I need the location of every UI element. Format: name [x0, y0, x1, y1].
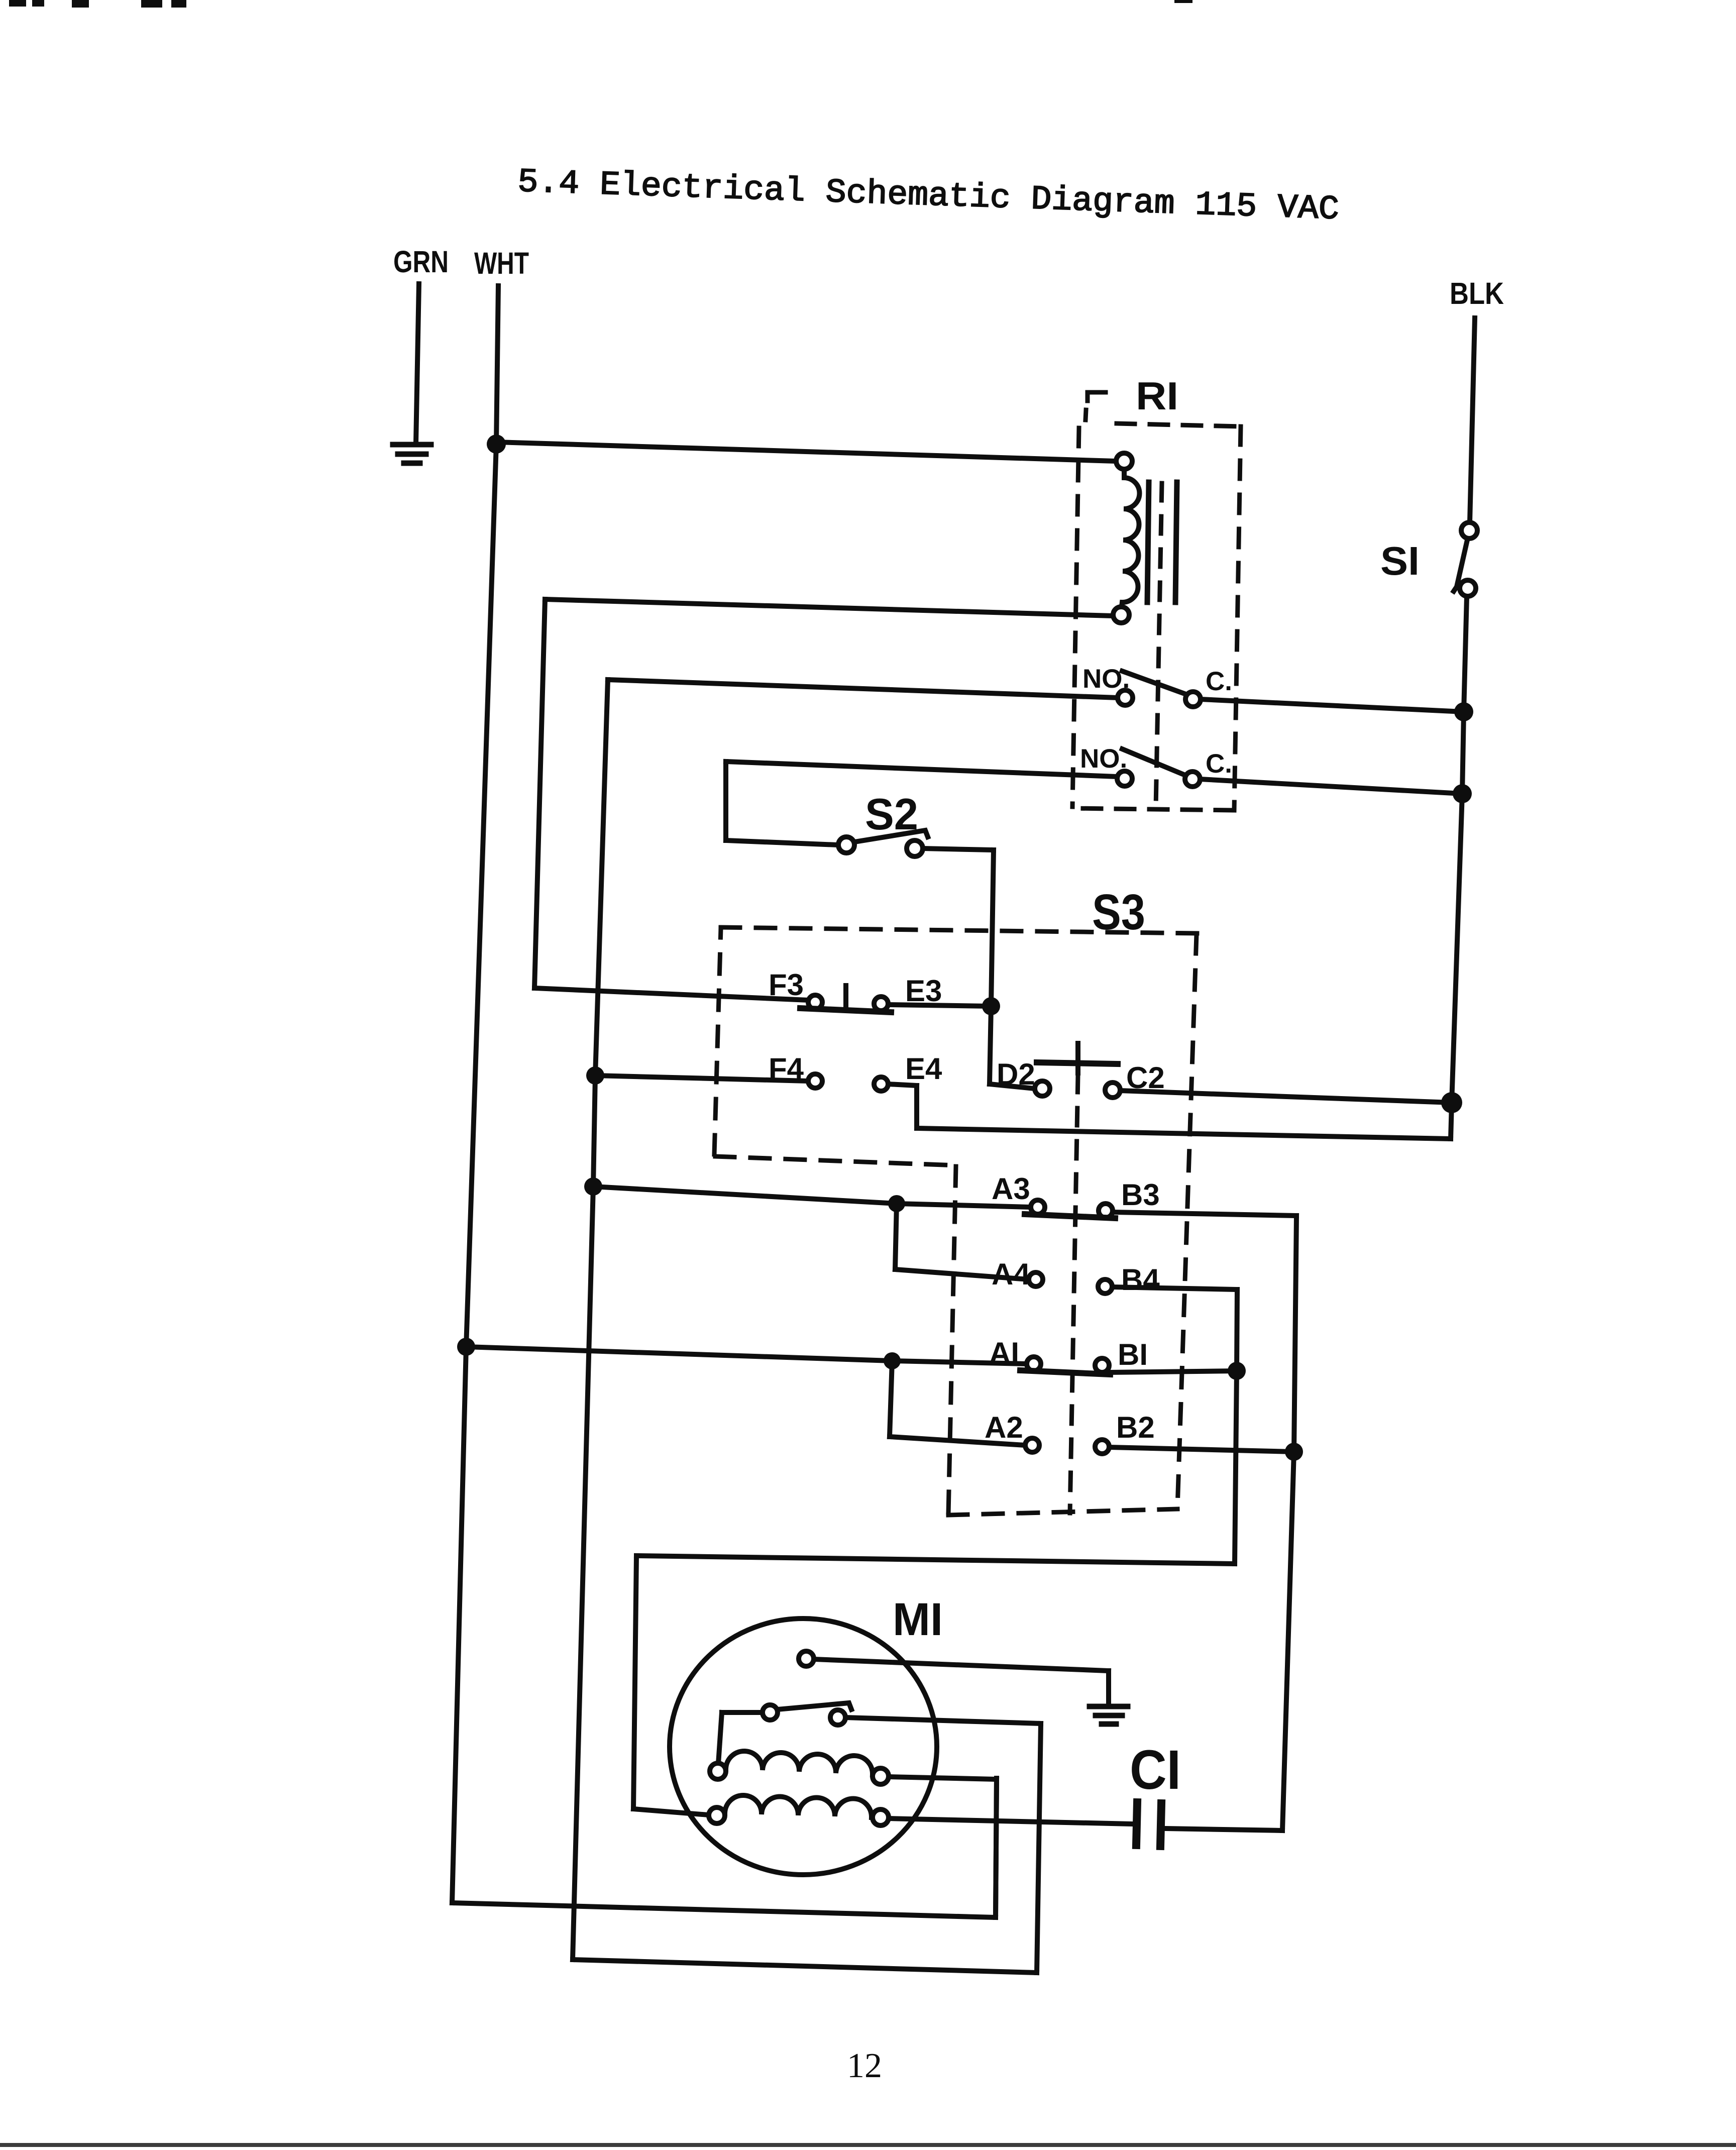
relay R1 coil [1113, 453, 1139, 623]
junction dot rail / A3 [584, 1177, 602, 1196]
svg-text:GRN: GRN [393, 245, 449, 279]
scan artifact marks top-left [9, 0, 1192, 8]
wire BLK lead [1470, 318, 1475, 522]
svg-text:12: 12 [847, 2047, 882, 2085]
wire WHT junction to A1 [466, 1347, 1027, 1364]
wire WHT lead down left side [452, 286, 997, 1917]
svg-text:CI: CI [1130, 1739, 1181, 1801]
svg-text:C.: C. [1206, 667, 1232, 696]
wire B1 rail down to winding2 left [633, 1371, 1237, 1815]
ground symbol M1 [1090, 1706, 1128, 1724]
contact A3-B3 (closed, bar below) [593, 1187, 1296, 1218]
svg-text:A2: A2 [985, 1411, 1023, 1444]
switch S2 [838, 830, 994, 1006]
wire contact2 NO to S2 (left elbow) [726, 762, 838, 845]
contact A4-B4 (open) [1029, 1272, 1237, 1371]
svg-text:B4: B4 [1121, 1263, 1160, 1297]
wire GRN lead [416, 284, 419, 443]
svg-text:5.4 Electrical Schematic Diagr: 5.4 Electrical Schematic Diagram 115 VAC [517, 163, 1340, 229]
svg-text:BI: BI [1118, 1338, 1148, 1371]
svg-text:SI: SI [1380, 539, 1420, 583]
wire B3/B2 rail down to capacitor [1165, 1216, 1296, 1831]
contact F3-E3 (closed, bar below) [800, 986, 991, 1012]
junction dot B2 / B3 rail [1285, 1443, 1303, 1461]
relay R1 core bars [1147, 482, 1177, 602]
svg-text:A4: A4 [992, 1257, 1030, 1291]
svg-text:E4: E4 [905, 1052, 942, 1086]
wire A2 branch [890, 1361, 1025, 1445]
relay R1 contact 2 (NO - C) [726, 749, 1462, 794]
svg-text:F3: F3 [769, 968, 804, 1002]
junction dot S1 rail / C2 wire [1441, 1092, 1462, 1113]
switch S3 dashed enclosure (upper box) [714, 927, 1197, 1508]
junction dot WHT at A1 branch [457, 1338, 475, 1356]
wire R1 coil bottom to F3 via left elbow [534, 599, 1113, 1000]
junction dot B1 / B4 rail [1228, 1362, 1246, 1380]
contact F4-E4 (open) [595, 1074, 888, 1091]
svg-text:B3: B3 [1121, 1178, 1160, 1212]
junction dot S2/E3 [982, 997, 1000, 1015]
motor M1 body circle [670, 1619, 937, 1875]
svg-text:RI: RI [1136, 374, 1178, 418]
motor M1 top terminal [799, 1651, 814, 1666]
wire A4 branch [895, 1204, 1029, 1279]
wire S1 down right rail to C2/E4 junction [888, 596, 1467, 1139]
junction dot rail / F4 [586, 1066, 604, 1085]
ground symbol GRN [393, 445, 431, 463]
capacitor C1 [1136, 1802, 1161, 1846]
junction dot S1 rail / contact2 C [1453, 784, 1472, 803]
wire WHT junction to R1 coil top [496, 442, 1116, 461]
svg-text:A3: A3 [992, 1172, 1030, 1206]
motor winding 1 (upper) [710, 1751, 997, 1917]
svg-text:D2: D2 [997, 1057, 1035, 1091]
contact A2-B2 (open) [1025, 1438, 1294, 1454]
svg-text:MI: MI [893, 1594, 943, 1645]
relay R1 dashed enclosure [1072, 392, 1241, 810]
junction dot S1 rail / contact1 C [1454, 702, 1473, 721]
svg-text:WHT: WHT [474, 246, 529, 280]
wire E3 junction down to D2 [990, 1006, 1035, 1089]
contact D2-C2 (closed, bar above) [1035, 1043, 1452, 1103]
svg-text:B2: B2 [1116, 1411, 1155, 1444]
motor centrifugal switch [718, 1703, 851, 1764]
junction dot WHT top [487, 435, 506, 454]
wire NO1 left rail down to motor switch [573, 680, 1041, 1973]
svg-text:C.: C. [1206, 749, 1232, 779]
bottom scan rule [0, 2143, 1736, 2147]
motor winding 2 (lower) [709, 1795, 1133, 1825]
switch S3 dashed enclosure (lower box) [948, 1075, 1177, 1515]
switch S1 [1454, 522, 1477, 596]
contact A1-B1 (closed, bar below) [1020, 1357, 1237, 1374]
junction dot A3 wire / A4 branch [888, 1195, 905, 1212]
svg-text:BLK: BLK [1450, 276, 1504, 310]
wire M1 top terminal to ground [814, 1659, 1109, 1704]
relay R1 contact 1 (NO - C) [608, 671, 1464, 712]
junction dot A1 wire / A2 branch [884, 1352, 901, 1369]
